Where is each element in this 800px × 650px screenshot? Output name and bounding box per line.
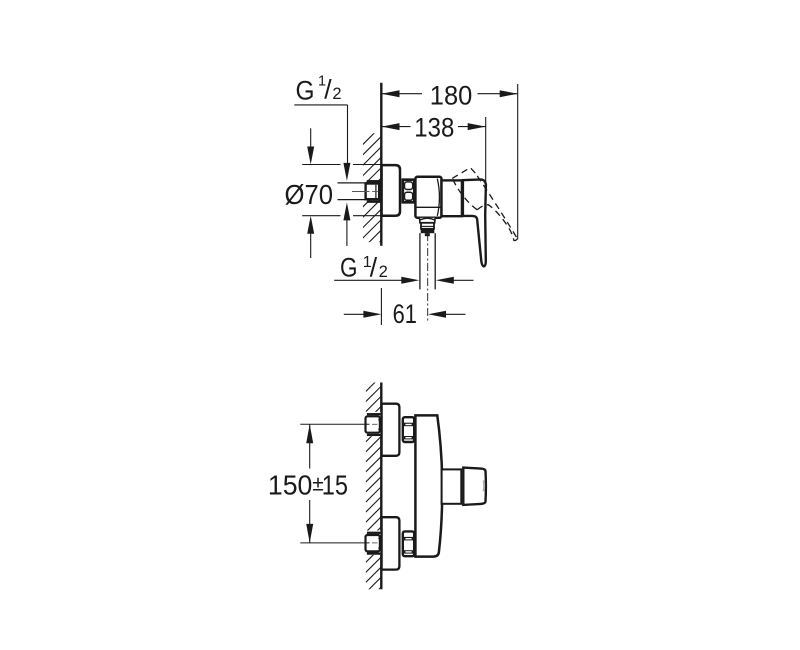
lever handle (solid, closed position) [463, 179, 486, 266]
upper escutcheon (front view) [382, 404, 400, 456]
wall hatching [366, 376, 382, 603]
wall hatching [359, 126, 381, 273]
connection nut (side view) [403, 180, 415, 203]
lower connection nut (front view) [403, 531, 414, 556]
cartridge cylinder [442, 180, 462, 216]
svg-text:G: G [296, 76, 315, 106]
handle open position (dashed) [452, 168, 517, 241]
hose nut (dark) [421, 229, 435, 233]
upper wall union (front view) [365, 412, 381, 436]
wall line [380, 83, 382, 246]
svg-text:Ø70: Ø70 [285, 179, 334, 210]
dimension diameter 70 [302, 164, 340, 166]
leader G1/2 top [294, 104, 347, 106]
union centerline [352, 191, 370, 193]
svg-text:2: 2 [379, 263, 388, 281]
dimension 138 [382, 126, 486, 128]
dimension 61 [380, 288, 382, 325]
label G 1/2 (hose thread, bottom) [340, 252, 388, 282]
lower wall union (front view) [365, 531, 381, 555]
mixer body (front view) [415, 415, 442, 556]
dimension 138 extension line right [485, 117, 487, 200]
hose flange [421, 223, 434, 229]
escutcheon (side view) [382, 165, 400, 216]
svg-text:150: 150 [268, 470, 313, 501]
svg-text:G: G [340, 253, 358, 283]
svg-text:15: 15 [322, 470, 348, 501]
upper union centerline / ext line 150 [300, 423, 369, 425]
hose centerline [427, 233, 429, 323]
wall line [380, 383, 382, 590]
mixer body (side view) [415, 177, 441, 218]
svg-text:/: / [324, 75, 332, 105]
svg-text:2: 2 [332, 85, 341, 103]
wall union hex (G1/2) [366, 184, 380, 200]
lower union centerline / ext line 150 [300, 542, 369, 544]
dimension 150 +/- 15 [309, 424, 311, 468]
dimension 180 [382, 93, 518, 95]
svg-text:61: 61 [393, 299, 417, 329]
shower hose [419, 233, 421, 289]
label G 1/2 (wall union, top) [296, 74, 342, 106]
dimension 180 extension line right [517, 84, 519, 239]
leader G1/2 bottom [334, 279, 401, 281]
upper connection nut (front view) [403, 417, 414, 442]
outlet hose nut (front view) [463, 468, 486, 505]
svg-text:/: / [370, 252, 378, 282]
svg-text:138: 138 [414, 112, 454, 142]
outlet neck below body [420, 218, 436, 223]
outlet neck (front view) [442, 469, 462, 503]
lower escutcheon (front view) [382, 517, 400, 569]
svg-text:180: 180 [430, 80, 473, 110]
supply pipe in wall [338, 182, 367, 200]
